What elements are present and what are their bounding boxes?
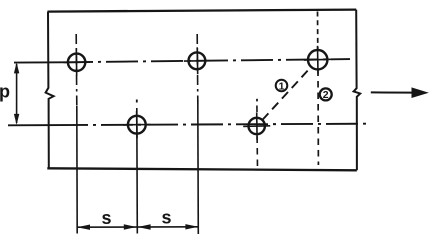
dimension p arrow down <box>14 114 19 125</box>
column centerline station 2 dot <box>136 100 138 103</box>
column centerline station 3 (chain above) <box>196 34 199 102</box>
column centerline station 4 dot <box>256 99 258 102</box>
column extension line station 1 <box>76 106 78 234</box>
column centerline station 4 upper tick <box>256 106 258 113</box>
column hidden line below hole 3 <box>317 70 319 166</box>
column extension line station 3 <box>197 100 200 234</box>
bottom row centerline solid left segment (p extension) <box>8 124 62 126</box>
svg-text:2: 2 <box>323 89 329 101</box>
hole 3 circle <box>308 50 327 69</box>
feed direction arrow shaft <box>371 91 414 93</box>
bottom row centerline chain <box>62 124 368 125</box>
svg-text:s: s <box>161 208 171 228</box>
svg-text:s: s <box>101 208 111 228</box>
dimension s arrow right-end <box>185 224 198 229</box>
hole 3 crosshair <box>304 46 332 74</box>
strip outline left edge with break mark <box>46 12 54 169</box>
svg-text:1: 1 <box>279 80 285 92</box>
svg-text:p: p <box>0 82 10 102</box>
dimension s arrow left-end <box>77 225 90 230</box>
dimension p arrow up <box>14 62 19 73</box>
hole 1 crosshair <box>64 49 91 76</box>
column hidden line above hole 3 <box>317 12 319 51</box>
dimension p line <box>16 64 18 123</box>
callout 1 circle <box>276 80 288 92</box>
dimension s arrow mid-left-pointing <box>138 224 151 229</box>
top row centerline chain <box>61 59 350 62</box>
hole 4 crosshair <box>123 111 150 138</box>
strip outline top edge <box>48 10 357 12</box>
feed direction arrow head <box>412 87 429 98</box>
hole 4 circle <box>128 116 146 134</box>
diagonal dashed transfer line <box>262 67 311 120</box>
top row centerline solid left segment (p extension) <box>14 61 61 63</box>
hole 2 crosshair <box>184 47 210 74</box>
hole 1 circle <box>68 54 85 71</box>
strip outline right edge with break mark <box>354 10 361 171</box>
callout 2 circle <box>320 88 332 100</box>
dimension s arrow mid-right-pointing <box>124 224 137 229</box>
hole 5 circle <box>249 118 265 134</box>
column extension line station 2 <box>136 108 139 234</box>
column centerline station 1 (chain above) <box>75 34 78 106</box>
dimension s line <box>77 226 198 228</box>
hole 2 circle <box>189 52 206 69</box>
column hidden line below hole 5 <box>256 137 258 169</box>
strip outline bottom edge <box>47 168 357 170</box>
hole 5 crosshair <box>243 112 270 139</box>
